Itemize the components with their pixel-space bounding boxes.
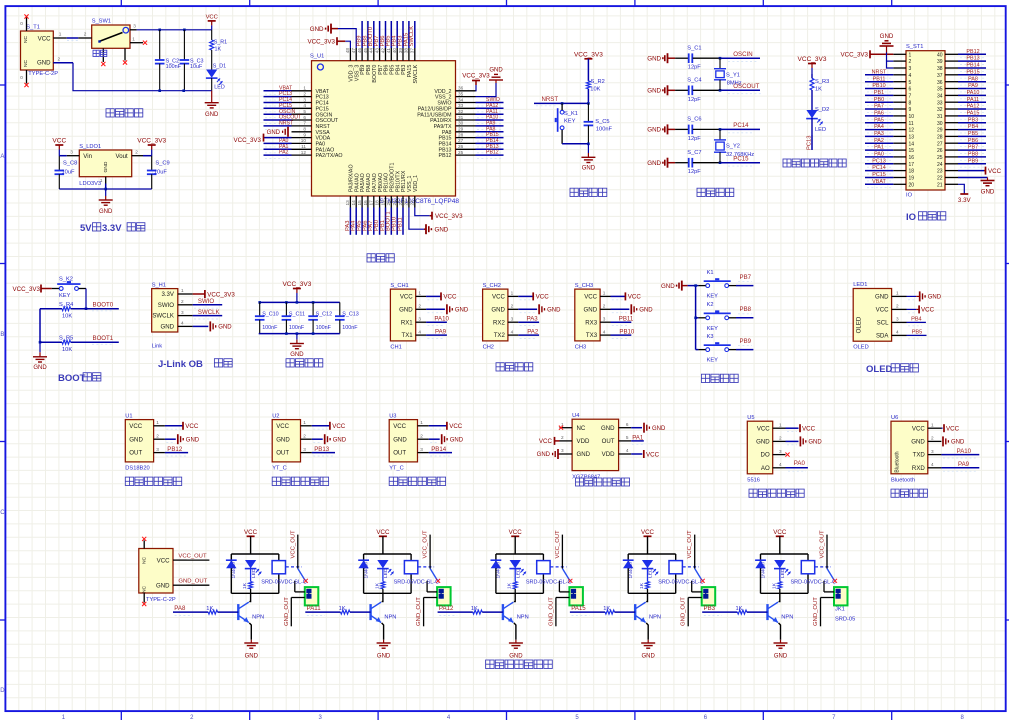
svg-text:VCC: VCC <box>921 307 935 314</box>
svg-text:1: 1 <box>779 422 782 427</box>
svg-text:JK1: JK1 <box>835 606 845 612</box>
svg-text:GND: GND <box>647 88 661 95</box>
svg-text:GND: GND <box>129 436 143 443</box>
net label SWIO (U1 right) <box>476 97 504 106</box>
svg-text:VCC: VCC <box>443 294 457 301</box>
caption 继电器控制电路 <box>486 660 553 669</box>
svg-text:3: 3 <box>909 66 912 72</box>
relay coil box (relay 1) <box>272 561 285 574</box>
svg-text:SDA: SDA <box>876 333 889 340</box>
svg-text:VCC: VCC <box>946 426 960 433</box>
svg-text:2: 2 <box>511 304 514 309</box>
svg-text:33: 33 <box>937 100 943 106</box>
svg-text:GND: GND <box>450 437 464 443</box>
svg-text:IO: IO <box>906 193 913 199</box>
svg-text:2: 2 <box>779 436 782 441</box>
svg-text:4: 4 <box>447 715 451 720</box>
svg-text:PA9: PA9 <box>435 329 447 336</box>
svg-text:GND: GND <box>186 437 200 443</box>
resistor S_R3 1K <box>810 74 829 110</box>
svg-text:SWCLK: SWCLK <box>198 309 220 316</box>
net label PA10 (CH1 RX) <box>426 316 449 326</box>
svg-text:3: 3 <box>931 449 934 454</box>
svg-text:25: 25 <box>458 150 464 155</box>
svg-text:1: 1 <box>132 36 135 41</box>
net label PA9 (U1 right) <box>476 121 504 130</box>
svg-text:NRST: NRST <box>542 96 559 103</box>
svg-text:S_K1: S_K1 <box>564 111 578 117</box>
net label PA5 (U1 bottom) <box>357 208 363 235</box>
power port VCC (relay 2) <box>376 529 390 554</box>
svg-text:GND: GND <box>647 160 661 167</box>
svg-text:PB10: PB10 <box>872 83 885 89</box>
net label VCC_OUT (relay 1) <box>290 530 298 569</box>
svg-text:3: 3 <box>603 316 606 321</box>
svg-text:LED: LED <box>515 568 521 578</box>
caption 滤波电路 <box>286 359 323 367</box>
svg-text:GND: GND <box>537 452 551 458</box>
svg-text:PB3: PB3 <box>968 117 978 123</box>
svg-text:VCC_3V3: VCC_3V3 <box>12 286 40 293</box>
svg-text:8: 8 <box>909 100 912 106</box>
svg-text:S_C10: S_C10 <box>262 312 278 318</box>
svg-text:PA1: PA1 <box>874 145 884 151</box>
svg-text:43: 43 <box>374 48 379 54</box>
capacitor S_C2 100nF <box>155 30 182 91</box>
svg-text:GND: GND <box>577 451 591 458</box>
LED (relay 1) <box>245 560 262 578</box>
svg-text:2: 2 <box>57 56 60 61</box>
svg-text:PB0: PB0 <box>874 97 884 103</box>
net label PA4 (ST1 left) <box>865 124 893 133</box>
svg-text:S_CH1: S_CH1 <box>390 283 408 289</box>
svg-text:PB5: PB5 <box>968 131 978 137</box>
svg-text:Link: Link <box>152 344 163 350</box>
svg-text:S_R5: S_R5 <box>59 336 73 342</box>
svg-text:CH2: CH2 <box>483 345 494 351</box>
net label PB8 (U1 top) <box>362 21 368 48</box>
svg-text:SRD-05VDC-SL-C: SRD-05VDC-SL-C <box>791 580 837 586</box>
ground (J-Link) <box>193 321 233 331</box>
svg-text:PA2: PA2 <box>527 329 539 336</box>
svg-text:PB14: PB14 <box>431 446 447 453</box>
svg-text:KEY: KEY <box>564 119 576 125</box>
svg-text:42: 42 <box>380 48 385 54</box>
svg-text:PC13: PC13 <box>806 135 812 150</box>
svg-text:PA7: PA7 <box>874 104 884 110</box>
capacitor S_C8 10uF <box>55 156 78 189</box>
net label PA6 (U1 bottom) <box>362 208 368 235</box>
svg-text:VDD: VDD <box>602 451 615 458</box>
svg-text:NRST: NRST <box>279 121 294 127</box>
svg-text:12: 12 <box>909 128 915 134</box>
svg-text:GND: GND <box>156 582 170 589</box>
capacitor S_C6 12pF <box>675 117 720 142</box>
svg-text:PB9: PB9 <box>968 158 978 164</box>
svg-text:TXD: TXD <box>913 452 926 459</box>
net label PB13 (ST1 right) <box>958 56 986 65</box>
svg-text:PA11: PA11 <box>307 605 322 612</box>
svg-text:11: 11 <box>301 144 306 149</box>
svg-text:23: 23 <box>404 200 409 206</box>
svg-text:4: 4 <box>896 330 899 335</box>
resistor 1K base (relay 5) <box>702 606 767 615</box>
net label NRST (reset) <box>536 96 558 106</box>
wire LDO Vin <box>59 155 66 157</box>
svg-text:2: 2 <box>418 304 421 309</box>
power port 3.3V (ST1 pin21) <box>958 184 972 204</box>
svg-text:1: 1 <box>418 291 421 296</box>
connector S_CH2 <box>483 283 519 351</box>
svg-text:100nF: 100nF <box>596 127 613 133</box>
relay type label (relay 2) <box>394 580 440 586</box>
svg-text:KEY: KEY <box>707 358 719 364</box>
svg-text:36: 36 <box>458 86 464 91</box>
net label PA8 (relay 1) <box>174 605 186 612</box>
net label SWCLK (J-Link) <box>193 309 223 319</box>
net label GND_OUT (relay 3) <box>548 597 556 627</box>
svg-text:RX1: RX1 <box>401 319 413 326</box>
svg-text:7: 7 <box>909 94 912 100</box>
capacitor S_C9 10uF <box>147 156 170 189</box>
no-connect X (U4 pin1) <box>559 426 563 430</box>
net label VBAT (U1 left) <box>264 85 293 94</box>
LED (relay 4) <box>642 560 659 578</box>
svg-text:RX3: RX3 <box>585 319 597 326</box>
svg-text:SWIO: SWIO <box>198 298 215 305</box>
caption 程序运行指示灯 <box>783 159 846 167</box>
svg-text:2: 2 <box>181 299 184 304</box>
svg-text:PA2: PA2 <box>874 138 884 144</box>
svg-text:100nF: 100nF <box>316 325 332 331</box>
capacitor S_C7 12pF <box>675 150 720 175</box>
svg-text:15: 15 <box>909 148 915 154</box>
svg-text:PA8: PA8 <box>174 605 186 612</box>
svg-text:SWCLK: SWCLK <box>413 64 419 83</box>
relay coil box (relay 3) <box>537 561 550 574</box>
svg-text:14: 14 <box>909 141 915 147</box>
net label PB9 (key) <box>736 338 753 350</box>
net label VCC_OUT (relay 2) <box>423 530 431 569</box>
relay contact (relay 1) <box>286 567 308 583</box>
ground (U1 VSS_1) <box>409 208 449 235</box>
net label PA8 (U1 right) <box>476 126 504 135</box>
net label PA3 (CH2 RX) <box>518 316 539 326</box>
net label BOOT0 <box>92 301 114 311</box>
svg-text:16: 16 <box>363 200 368 206</box>
net label VCC_OUT (relay 4) <box>687 530 695 569</box>
svg-text:3: 3 <box>156 447 159 452</box>
svg-text:VCC: VCC <box>400 294 413 301</box>
net label PA3 (ST1 left) <box>865 131 893 140</box>
net label PA0 (ST1 left) <box>865 152 893 161</box>
net label PA10 (U1 right) <box>476 115 504 124</box>
svg-text:38: 38 <box>937 66 943 72</box>
svg-text:GND: GND <box>951 440 965 446</box>
power port VCC (U4 pin2) <box>539 437 560 445</box>
svg-text:GND: GND <box>880 33 894 40</box>
svg-text:VCC_OUT: VCC_OUT <box>820 530 826 559</box>
svg-text:0: 0 <box>20 21 23 26</box>
ground (relay 1) <box>244 640 258 660</box>
svg-text:1: 1 <box>100 178 103 183</box>
svg-text:6: 6 <box>909 87 912 93</box>
svg-text:1K: 1K <box>639 582 645 589</box>
terminal designator JK1 SRD-05 <box>835 606 855 622</box>
svg-text:GND: GND <box>377 654 391 660</box>
net label NRST (ST1 left) <box>865 69 893 78</box>
wire LDO bottom rail <box>59 184 151 191</box>
svg-text:GND: GND <box>435 227 449 234</box>
net label PB4 (U1 top) <box>392 21 398 48</box>
net label PB6 (ST1 right) <box>958 138 986 147</box>
svg-text:VCC: VCC <box>628 294 642 301</box>
net label PB11 (U1 bottom) <box>397 208 403 235</box>
ground (U4 pin3) <box>537 449 560 459</box>
svg-text:31: 31 <box>458 115 464 120</box>
svg-text:2: 2 <box>561 435 564 440</box>
resistor 1K base (relay 2) <box>305 606 370 615</box>
svg-text:GND: GND <box>103 161 109 172</box>
net label BOOT1 (U1 bottom) <box>386 208 392 235</box>
svg-text:KEY: KEY <box>707 326 719 332</box>
svg-text:GND_OUT: GND_OUT <box>416 597 422 626</box>
net label PB12 (U1 right) <box>476 150 504 159</box>
svg-text:PB5: PB5 <box>912 330 923 336</box>
svg-text:NPN: NPN <box>517 614 529 620</box>
svg-text:VCC: VCC <box>757 425 770 432</box>
net label BOOT0 (U1 top) <box>368 21 374 48</box>
svg-text:3: 3 <box>303 97 306 102</box>
capacitor S_C5 100nF <box>584 103 613 143</box>
svg-text:37: 37 <box>937 73 943 79</box>
svg-text:3: 3 <box>303 447 306 452</box>
terminal block (relay 1) <box>291 581 318 606</box>
caption 按键电路 <box>701 374 738 382</box>
svg-text:5: 5 <box>626 435 629 440</box>
net label PB0 (ST1 left) <box>865 97 893 106</box>
relay coil box (relay 2) <box>404 561 417 574</box>
net label PB7 (key) <box>736 274 753 286</box>
svg-text:12pF: 12pF <box>688 169 701 175</box>
svg-text:1K: 1K <box>815 87 822 93</box>
svg-text:OLED: OLED <box>866 364 893 375</box>
net label VCC_OUT (source) <box>178 554 209 561</box>
caption 5V转3.3V电路 <box>80 223 145 234</box>
svg-text:DS18B20: DS18B20 <box>125 466 149 472</box>
caption 光照检测模块 <box>749 489 804 497</box>
svg-text:GND: GND <box>647 56 661 63</box>
resistor 1K (relay 1) <box>242 568 253 594</box>
caption 蓝牙模块 <box>891 489 927 497</box>
svg-text:VBAT: VBAT <box>872 179 886 185</box>
svg-text:GND: GND <box>333 437 347 443</box>
svg-text:VCC: VCC <box>876 307 889 314</box>
svg-text:20: 20 <box>909 182 915 188</box>
net label PB5 (OLED SDA) <box>907 330 927 339</box>
svg-text:2: 2 <box>84 32 87 37</box>
net label PA9 (U6 RXD) <box>941 461 979 471</box>
svg-text:5: 5 <box>909 80 912 86</box>
capacitor S_C12 100nF <box>308 302 332 333</box>
svg-text:SWIO: SWIO <box>158 302 175 309</box>
power port VCC (U4 pin4) <box>631 450 659 458</box>
svg-text:10uF: 10uF <box>62 170 75 176</box>
svg-text:28: 28 <box>937 135 943 141</box>
svg-text:1: 1 <box>420 420 423 425</box>
connector S_H1 J-Link <box>152 282 193 349</box>
svg-text:3: 3 <box>561 448 564 453</box>
svg-text:PB10: PB10 <box>619 329 635 336</box>
svg-text:TX3: TX3 <box>586 332 598 339</box>
svg-text:34: 34 <box>458 97 464 102</box>
svg-text:SWCLK: SWCLK <box>152 313 174 320</box>
svg-text:100nF: 100nF <box>342 325 358 331</box>
relay coil loop (relay 1) <box>231 554 278 593</box>
caption 电源电路 <box>106 109 143 117</box>
ground (keys) <box>661 281 688 291</box>
transistor NPN (relay 2) <box>371 593 397 640</box>
svg-text:1: 1 <box>303 420 306 425</box>
net label GND_OUT (relay 4) <box>681 597 689 627</box>
svg-text:45: 45 <box>363 48 368 54</box>
svg-text:1: 1 <box>603 291 606 296</box>
relay type label (relay 5) <box>791 580 837 586</box>
svg-text:21: 21 <box>937 182 943 188</box>
svg-text:19: 19 <box>909 176 915 182</box>
svg-text:TX2: TX2 <box>494 332 506 339</box>
svg-text:8: 8 <box>303 127 306 132</box>
svg-text:OUT: OUT <box>129 450 142 457</box>
net label PA0 (U1 left) <box>264 138 292 147</box>
svg-text:GND_OUT: GND_OUT <box>284 597 290 626</box>
svg-text:PB13: PB13 <box>966 56 979 62</box>
svg-text:S_C9: S_C9 <box>155 161 169 167</box>
net label PA11 (U1 right) <box>476 109 504 118</box>
svg-text:S_C11: S_C11 <box>289 312 305 318</box>
svg-text:PA3: PA3 <box>527 316 539 323</box>
wire filter bottom rail <box>259 332 340 335</box>
relay contact (relay 3) <box>550 567 572 583</box>
svg-text:2: 2 <box>303 91 306 96</box>
svg-text:PA9: PA9 <box>968 83 978 89</box>
svg-text:27: 27 <box>458 138 464 143</box>
svg-text:PA12: PA12 <box>967 104 980 110</box>
svg-text:18: 18 <box>909 169 915 175</box>
svg-text:4: 4 <box>181 321 184 326</box>
svg-text:GND: GND <box>160 324 174 331</box>
svg-text:S_LDO1: S_LDO1 <box>79 144 101 150</box>
power port VCC <box>206 14 218 29</box>
relay type label (relay 1) <box>261 580 307 586</box>
button K2 KEY <box>698 302 736 332</box>
svg-text:S_U1: S_U1 <box>310 54 324 60</box>
module U1 DS18B20 <box>125 413 165 471</box>
svg-text:13: 13 <box>909 135 915 141</box>
power port VCC_3V3 (U1 VDD_2) <box>462 73 490 91</box>
LED (relay 2) <box>377 560 394 578</box>
net label PB1 (ST1 left) <box>865 90 893 99</box>
svg-text:3: 3 <box>70 149 73 154</box>
net label PB3 (ST1 right) <box>958 117 986 126</box>
svg-text:C: C <box>0 510 5 516</box>
power port VCC (relay 1) <box>244 529 258 554</box>
svg-text:Bluetooth: Bluetooth <box>891 478 915 484</box>
ground (S_C7) <box>647 158 675 168</box>
net label PA15 (ST1 right) <box>958 111 986 120</box>
net label PB15 (ST1 right) <box>958 69 986 78</box>
svg-text:GND: GND <box>491 306 505 313</box>
svg-text:3.3V: 3.3V <box>161 291 174 298</box>
transistor NPN (relay 4) <box>635 593 661 640</box>
power port VCC_3V3 (boot) <box>12 285 51 294</box>
svg-text:RXD: RXD <box>912 465 925 472</box>
ground (U3) <box>429 434 464 444</box>
svg-text:S_C5: S_C5 <box>595 119 609 125</box>
power port VCC (CH3) <box>611 292 642 300</box>
diode 1N4007 (relay 2) <box>358 560 369 578</box>
svg-text:1N4007: 1N4007 <box>628 561 634 578</box>
svg-text:PC14: PC14 <box>872 165 886 171</box>
svg-text:GND: GND <box>399 306 413 313</box>
net label PA2 (U1 left) <box>264 150 292 159</box>
svg-text:GND: GND <box>99 209 113 215</box>
net label PB10 (CH3 TX) <box>611 329 635 339</box>
svg-text:PB4: PB4 <box>911 317 922 323</box>
LED (relay 3) <box>509 560 526 578</box>
svg-text:PB12: PB12 <box>167 446 183 453</box>
svg-text:U1: U1 <box>125 413 132 419</box>
svg-text:GND: GND <box>661 283 675 290</box>
svg-text:VDD: VDD <box>577 438 590 445</box>
svg-text:NPN: NPN <box>252 614 264 620</box>
net label PA11 (ST1 right) <box>958 97 986 106</box>
svg-text:LDO3V3: LDO3V3 <box>79 181 101 187</box>
svg-text:GND: GND <box>642 654 656 660</box>
ground (S_C6) <box>647 124 675 134</box>
svg-text:GND: GND <box>639 308 653 314</box>
svg-text:5: 5 <box>575 715 579 720</box>
svg-text:15: 15 <box>357 200 362 206</box>
svg-text:1K: 1K <box>471 606 478 612</box>
svg-text:VCC: VCC <box>52 138 66 145</box>
svg-text:3: 3 <box>511 316 514 321</box>
svg-text:5V: 5V <box>80 223 92 234</box>
svg-text:GND: GND <box>290 352 304 358</box>
wire power bottom rail <box>53 63 211 92</box>
svg-text:3: 3 <box>181 310 184 315</box>
svg-text:VCC: VCC <box>276 423 289 430</box>
svg-text:3: 3 <box>896 317 899 322</box>
svg-text:PB11: PB11 <box>873 76 886 82</box>
wire switch to VCC rail <box>137 29 212 32</box>
svg-text:U3: U3 <box>389 413 396 419</box>
svg-text:PB4: PB4 <box>968 124 978 130</box>
svg-text:GND: GND <box>875 294 889 301</box>
svg-text:GND: GND <box>455 308 469 314</box>
svg-text:GND: GND <box>489 68 503 74</box>
terminal block (relay 4) <box>688 581 715 606</box>
svg-text:LED: LED <box>214 84 225 90</box>
svg-text:PB12: PB12 <box>966 49 979 55</box>
svg-text:11: 11 <box>909 121 914 127</box>
resistor S_R5 10K <box>59 336 73 354</box>
net label VCC_OUT (relay 5) <box>820 530 828 569</box>
net label PA7 (ST1 left) <box>865 104 893 113</box>
svg-text:GND: GND <box>33 365 47 371</box>
power port VCC_3V3 (filter) <box>282 281 311 302</box>
svg-text:PB12: PB12 <box>439 153 452 159</box>
